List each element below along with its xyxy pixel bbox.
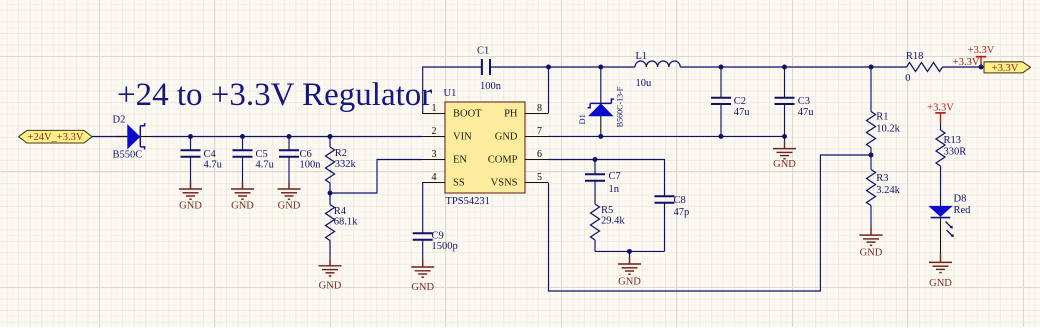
svg-text:47p: 47p xyxy=(674,207,690,218)
node dot R2/VIN xyxy=(328,134,333,139)
node dot R2/R4 junction xyxy=(328,191,333,196)
pin 8 PH xyxy=(525,113,548,115)
resistor R3 xyxy=(867,155,901,228)
resistor R4 xyxy=(326,193,359,258)
svg-text:4.7u: 4.7u xyxy=(204,159,223,170)
svg-text:GND: GND xyxy=(495,131,518,142)
pin 5 VSNS xyxy=(525,182,548,184)
node dot D1 top xyxy=(598,65,603,70)
svg-text:C1: C1 xyxy=(477,46,489,57)
pin 6 COMP xyxy=(525,159,548,161)
svg-text:GND: GND xyxy=(773,159,796,170)
svg-text:+3.3V: +3.3V xyxy=(968,45,995,56)
ground under C6 xyxy=(278,182,301,212)
svg-text:COMP: COMP xyxy=(488,154,518,165)
node dots C3 xyxy=(782,65,787,70)
svg-text:Red: Red xyxy=(954,205,972,216)
svg-text:+24V_+3.3V: +24V_+3.3V xyxy=(28,132,84,143)
svg-text:R5: R5 xyxy=(601,205,613,216)
wire D2 to VIN pin xyxy=(152,136,422,138)
diode D1 vertical xyxy=(577,67,624,136)
resistor R13 xyxy=(936,123,966,206)
wire BOOT riser to C1 row xyxy=(423,67,481,114)
svg-text:1: 1 xyxy=(432,103,437,114)
ground under R4 xyxy=(319,258,342,291)
node dot comp gnd xyxy=(627,249,632,254)
svg-text:330R: 330R xyxy=(944,146,967,157)
svg-text:4.7u: 4.7u xyxy=(256,159,275,170)
svg-text:+24 to +3.3V Regulator: +24 to +3.3V Regulator xyxy=(117,77,432,113)
svg-text:68.1k: 68.1k xyxy=(334,217,358,228)
svg-text:7: 7 xyxy=(537,126,542,137)
resistor R5 xyxy=(591,204,626,251)
node dot COMP/C7 xyxy=(593,157,598,162)
wire C7/R5 bottom to C8 bottom xyxy=(595,250,665,252)
svg-text:+3.3V: +3.3V xyxy=(992,63,1019,74)
svg-text:8: 8 xyxy=(537,103,542,114)
resistor R2 xyxy=(326,137,357,194)
node dot R1/R3 junction xyxy=(869,153,874,158)
pin 1 BOOT xyxy=(422,113,445,115)
diode D2 xyxy=(113,115,153,161)
svg-text:6: 6 xyxy=(537,149,542,160)
node dot R1 top xyxy=(869,65,874,70)
svg-text:R3: R3 xyxy=(876,173,888,184)
svg-text:R1: R1 xyxy=(876,112,888,123)
svg-text:100n: 100n xyxy=(480,81,502,92)
node dot C4/VIN xyxy=(188,134,193,139)
ground under D8 xyxy=(929,255,952,289)
resistor R1 xyxy=(867,67,901,155)
svg-text:1500p: 1500p xyxy=(432,241,458,252)
svg-text:R13: R13 xyxy=(944,135,962,146)
capacitor C8 xyxy=(655,195,690,251)
power port +3.3V above R13 xyxy=(927,102,954,123)
svg-text:C8: C8 xyxy=(674,195,686,206)
port +24V_+3.3V xyxy=(19,130,93,143)
wire VSNS feedback xyxy=(549,155,872,291)
capacitor C4 xyxy=(181,137,223,182)
power port +3.3V at output xyxy=(968,45,995,67)
svg-text:D8: D8 xyxy=(954,193,967,204)
ground under C9 xyxy=(411,260,434,293)
svg-text:VIN: VIN xyxy=(453,131,472,142)
ground under R3 xyxy=(860,228,883,259)
LED D8 xyxy=(930,193,972,255)
wire SS to C9 xyxy=(422,183,424,234)
capacitor C7 xyxy=(585,160,621,205)
capacitor C9 xyxy=(413,231,458,260)
svg-text:10.2k: 10.2k xyxy=(876,124,900,135)
svg-text:VSNS: VSNS xyxy=(491,177,518,188)
ground under C7/C8 xyxy=(618,251,641,287)
svg-text:C9: C9 xyxy=(432,231,444,242)
svg-text:C2: C2 xyxy=(734,96,746,107)
svg-text:D1: D1 xyxy=(577,114,587,124)
svg-text:3: 3 xyxy=(432,149,437,160)
svg-text:2: 2 xyxy=(432,126,437,137)
svg-text:B560C-13-F: B560C-13-F xyxy=(615,86,624,127)
svg-text:TPS54231: TPS54231 xyxy=(446,196,490,207)
svg-text:B550C: B550C xyxy=(113,150,143,161)
pin 3 EN xyxy=(422,159,445,161)
wire L1 to output port xyxy=(680,66,906,68)
svg-text:100n: 100n xyxy=(300,159,322,170)
capacitor C3 xyxy=(775,67,815,136)
node dot C6/VIN xyxy=(287,134,292,139)
wire top rail PH to L1 xyxy=(549,66,636,68)
svg-text:C7: C7 xyxy=(609,171,621,182)
pin 4 SS xyxy=(422,182,445,184)
svg-text:29.4k: 29.4k xyxy=(601,216,625,227)
svg-text:+3.3V: +3.3V xyxy=(953,57,980,68)
capacitor C6 xyxy=(279,137,321,182)
ground under C5 xyxy=(231,182,254,212)
svg-text:3.24k: 3.24k xyxy=(876,185,900,196)
svg-text:GND: GND xyxy=(929,278,952,289)
wire GND net pin7 to C3 xyxy=(548,135,785,137)
wire COMP to C7/C8 xyxy=(548,160,665,197)
inductor L1 xyxy=(635,51,680,89)
node dots C2 xyxy=(719,65,724,70)
capacitor C5 xyxy=(233,137,275,182)
svg-text:47u: 47u xyxy=(798,107,815,118)
svg-text:D2: D2 xyxy=(113,115,126,126)
svg-text:5: 5 xyxy=(537,172,542,183)
svg-text:L1: L1 xyxy=(636,51,648,62)
svg-text:C3: C3 xyxy=(798,96,810,107)
capacitor C2 xyxy=(711,67,750,136)
svg-text:47u: 47u xyxy=(734,107,751,118)
wire EN: R2/R4 junction to pin3 xyxy=(330,160,422,194)
capacitor C1 xyxy=(477,46,502,92)
ground under C4 xyxy=(179,182,202,212)
svg-text:R4: R4 xyxy=(334,206,347,217)
resistor R18 xyxy=(905,51,984,84)
svg-text:10u: 10u xyxy=(636,78,653,89)
node dot C5/VIN xyxy=(240,134,245,139)
svg-text:SS: SS xyxy=(453,177,465,188)
svg-text:GND: GND xyxy=(278,200,301,211)
svg-text:GND: GND xyxy=(860,247,883,258)
pin 7 GND xyxy=(525,136,548,138)
ground under C3 xyxy=(773,136,796,169)
svg-text:U1: U1 xyxy=(444,88,457,99)
wire port to D2 xyxy=(92,136,128,138)
svg-text:R18: R18 xyxy=(906,51,924,62)
node dot PH/C1 xyxy=(546,65,551,70)
svg-text:GND: GND xyxy=(618,276,641,287)
pin 2 VIN xyxy=(422,136,445,138)
svg-text:PH: PH xyxy=(504,108,518,119)
svg-text:4: 4 xyxy=(432,172,437,183)
svg-text:1n: 1n xyxy=(609,184,620,195)
svg-text:GND: GND xyxy=(179,200,202,211)
svg-text:GND: GND xyxy=(231,200,254,211)
svg-text:GND: GND xyxy=(319,281,342,292)
svg-text:EN: EN xyxy=(453,154,467,165)
svg-text:0: 0 xyxy=(905,73,910,84)
svg-text:BOOT: BOOT xyxy=(453,108,482,119)
IC U1 TPS54231 xyxy=(422,88,548,207)
svg-text:R2: R2 xyxy=(335,148,347,159)
svg-text:+3.3V: +3.3V xyxy=(927,102,954,113)
port +3.3V xyxy=(984,62,1031,74)
svg-text:332k: 332k xyxy=(335,159,357,170)
wire C1 to PH riser xyxy=(491,67,549,114)
node dot D1 bottom xyxy=(598,134,603,139)
node dot output xyxy=(979,65,984,70)
svg-text:GND: GND xyxy=(411,282,434,293)
